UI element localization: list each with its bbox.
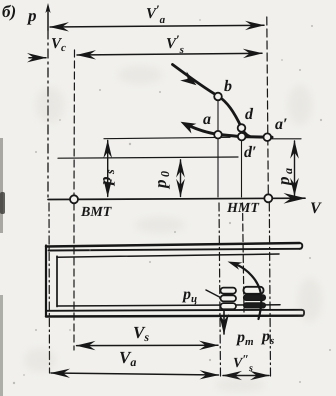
svg-text:НМТ: НМТ — [226, 201, 260, 216]
dimension Vs — [77, 344, 219, 346]
scan smudge left edge lower — [0, 295, 3, 396]
flow arrowhead on expansion curve — [180, 72, 196, 86]
ps measure arrow — [107, 141, 109, 197]
cylinder top wall lower line — [49, 249, 300, 251]
gas-exchange line through a'' d' a with arrow — [188, 125, 272, 137]
vertical dashed line below a to Va dimension — [219, 203, 221, 376]
svg-text:p: p — [26, 6, 37, 25]
ps pressure level line — [104, 137, 230, 138]
exhaust port slot 3 — [221, 303, 237, 309]
vertical dashed line through a'' and NMT — [267, 17, 269, 195]
point BMT on axis — [70, 195, 78, 203]
point a'' — [264, 133, 272, 141]
point a — [214, 131, 222, 139]
point d' — [238, 133, 246, 141]
cylinder bottom wall outer line — [46, 315, 303, 318]
pointer line from p_ts to ports — [206, 290, 220, 297]
p axis lower dash-dot continuation — [48, 203, 51, 373]
exhaust port slot 1 — [221, 288, 237, 294]
V axis — [48, 198, 305, 199]
cylinder liner top inner line — [57, 254, 279, 257]
cylinder top wall right end cap — [300, 243, 303, 249]
scan blob left edge — [0, 192, 5, 214]
point d — [238, 124, 246, 132]
svg-text:б): б) — [2, 2, 16, 21]
dimension V's — [77, 53, 262, 55]
svg-text:ВМТ: ВМТ — [80, 205, 113, 220]
cylinder bottom wall right end cap — [302, 310, 305, 316]
p axis — [47, 9, 49, 30]
scavenge port slot 1 — [244, 287, 264, 294]
vertical line through d and d' — [241, 130, 243, 197]
exhaust arrow p_t down — [223, 311, 225, 334]
svg-text:a′: a′ — [275, 116, 288, 133]
scan smudge left edge upper — [0, 138, 3, 233]
arrowhead of gas-exchange line — [181, 122, 197, 134]
svg-text:V: V — [310, 200, 322, 217]
p0 pressure level line — [58, 157, 238, 158]
scavenging flow curved arrow — [237, 265, 261, 319]
svg-text:a: a — [203, 111, 211, 128]
svg-text:d′: d′ — [244, 144, 257, 161]
pa measure arrow — [294, 141, 296, 196]
expansion curve into b and d — [173, 65, 251, 137]
faint paper mottle — [24, 66, 322, 392]
scavenge port slot 2 filled — [244, 295, 266, 301]
cylinder bottom wall upper line — [46, 310, 302, 311]
dimension Vc outside arrow — [29, 57, 46, 59]
dimension V''s — [223, 375, 269, 377]
svg-text:d: d — [245, 106, 254, 123]
dimension V'a — [50, 25, 264, 27]
BMT vertical dashed line — [73, 50, 76, 195]
exhaust port slot 2 — [221, 295, 237, 301]
cylinder head outer wall — [45, 246, 47, 317]
vertical line through b and a — [217, 99, 219, 197]
cylinder head inner wall — [56, 256, 58, 306]
point NMT on axis — [264, 194, 272, 202]
cylinder liner bottom inner line — [57, 305, 280, 306]
point b — [214, 93, 222, 101]
scavenge port slot 3 filled — [244, 303, 266, 308]
p0 measure arrow — [180, 160, 182, 197]
pa level extension right of a'' — [271, 138, 301, 140]
arrowhead of curved arrow — [228, 262, 243, 270]
svg-text:b: b — [224, 78, 232, 95]
cylinder top wall outer line — [46, 243, 300, 247]
vertical dashed line below d' into cylinder — [243, 203, 245, 312]
dimension Va — [51, 373, 219, 375]
